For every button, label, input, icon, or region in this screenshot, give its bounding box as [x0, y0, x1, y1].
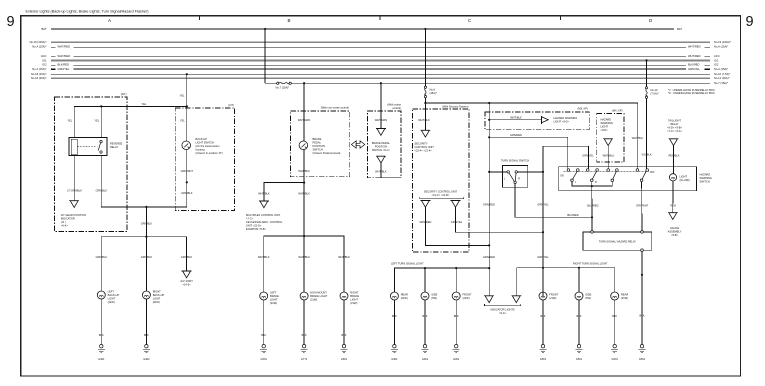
- svg-text:(With Security System): (With Security System): [442, 105, 469, 109]
- svg-text:GRN/YEL: GRN/YEL: [537, 203, 549, 207]
- svg-text:No.18 (15A)*: No.18 (15A)*: [31, 72, 47, 76]
- wire hazard feed horizontal: [425, 103, 637, 169]
- ground G401 left: [98, 345, 105, 353]
- fuse No.6: [424, 86, 426, 98]
- svg-text:WHT/BLK: WHT/BLK: [510, 115, 522, 119]
- wire right side drop: [578, 268, 580, 292]
- svg-text:BLK: BLK: [423, 314, 428, 318]
- hazard gang dashed line: [564, 170, 650, 172]
- svg-text:GRN/WHT: GRN/WHT: [181, 169, 194, 173]
- equivalence double arrow: [351, 141, 364, 148]
- connector arrow taillight relay: [669, 139, 679, 146]
- wire left front drop: [455, 268, 457, 292]
- svg-text:TURN SIGNAL/ HAZARD RELAY: TURN SIGNAL/ HAZARD RELAY: [599, 240, 637, 243]
- svg-text:BLK: BLK: [612, 314, 617, 318]
- connector arrow A/T gear position: [69, 201, 79, 208]
- svg-text:WHT/RED: WHT/RED: [688, 54, 701, 58]
- svg-text:FRONT: FRONT: [549, 292, 558, 296]
- node GRN/RED security join: [488, 244, 490, 246]
- wire high mount drop: [303, 236, 305, 292]
- section tick 3: [560, 16, 562, 20]
- wire GRN/YEL security: [456, 207, 544, 232]
- svg-text:YEL: YEL: [67, 119, 72, 123]
- wire hazard R to GRN/YEL riser: [543, 146, 588, 296]
- MX KP dash-dot box 2: [597, 114, 624, 163]
- svg-text:(21W): (21W): [153, 300, 160, 304]
- svg-text:(With cruise: (With cruise: [387, 103, 401, 107]
- bus No.A (15A) WHT/RED: [51, 46, 56, 48]
- lamp left side turn: [421, 292, 429, 300]
- svg-text:<9-D> <9-B>: <9-D> <9-B>: [667, 125, 682, 129]
- node GRN/RED riser top: [488, 102, 490, 104]
- svg-text:WHT/GRN: WHT/GRN: [375, 118, 388, 122]
- svg-text:RELAY: RELAY: [110, 145, 119, 149]
- wire hazard common to relay: [591, 182, 593, 187]
- svg-text:LIGHT <9-D>: LIGHT <9-D>: [554, 120, 570, 124]
- connector arrow cruise upper: [376, 129, 386, 136]
- svg-text:<21-C> <21-B>: <21-C> <21-B>: [432, 193, 450, 197]
- svg-text:SIDE: SIDE: [585, 292, 591, 296]
- svg-text:TAILLIGHT: TAILLIGHT: [668, 118, 681, 122]
- A/T dash-dot box left: [55, 97, 128, 232]
- svg-text:KEYLESS/ALARM - CONTROL: KEYLESS/ALARM - CONTROL: [246, 220, 283, 224]
- node brake splice: [303, 235, 305, 237]
- A/T dash-dot box right (back-up switch): [175, 108, 234, 211]
- svg-text:No.19 (100A)*: No.19 (100A)*: [714, 40, 731, 44]
- svg-text:LT GRN/BLK: LT GRN/BLK: [67, 189, 82, 193]
- wire bulb top: [673, 167, 675, 174]
- svg-text:No.A (15A)*: No.A (15A)*: [714, 45, 728, 49]
- node hazard feed: [424, 102, 426, 104]
- svg-text:GRN/RED: GRN/RED: [483, 203, 495, 207]
- bracket security outputs: [420, 197, 464, 199]
- bus No.19 (100A): [51, 41, 710, 43]
- svg-text:G601: G601: [261, 357, 268, 361]
- section tick 2: [379, 16, 381, 20]
- wire right backup light drop: [145, 237, 147, 291]
- svg-text:Exterior Lights (Back-up Light: Exterior Lights (Back-up Lights, Brake L…: [26, 10, 150, 14]
- svg-text:SWITCH <9-C>: SWITCH <9-C>: [372, 148, 391, 152]
- bus IG1: [51, 59, 710, 61]
- wire right turn bus: [516, 268, 614, 292]
- svg-text:G501: G501: [540, 357, 547, 361]
- svg-text:LIGHT: LIGHT: [601, 124, 609, 128]
- relay terminal top right: [641, 231, 644, 234]
- ground G301 c: [453, 345, 460, 353]
- bus No.A (15A) GRN/YEL: [51, 68, 56, 70]
- svg-text:GRY/WHT: GRY/WHT: [636, 203, 649, 207]
- svg-text:HAZARD WARNING: HAZARD WARNING: [554, 116, 578, 120]
- wire high mount to ground: [303, 300, 305, 345]
- wire WHT/BLK below brake switch: [303, 150, 305, 237]
- svg-text:GRN/YEL: GRN/YEL: [688, 67, 700, 71]
- lamp left rear turn: [390, 292, 398, 300]
- cruise control dash-dot box: [368, 111, 401, 178]
- wire left brake to ground: [263, 300, 265, 345]
- svg-text:IG1: IG1: [42, 58, 47, 62]
- svg-text:WHT/BLK: WHT/BLK: [298, 169, 310, 173]
- svg-text:(A/T): (A/T): [121, 92, 127, 96]
- connector arrow indicator left: [484, 296, 494, 303]
- svg-text:YEL: YEL: [180, 119, 185, 123]
- svg-text:No.A (15A)*: No.A (15A)*: [32, 67, 46, 71]
- svg-text:RIGHT: RIGHT: [153, 289, 161, 293]
- svg-text:SECURITY: SECURITY: [415, 142, 428, 146]
- connector arrow multiplex: [259, 201, 269, 208]
- wire WHT/BLK cruise out: [381, 163, 401, 178]
- svg-text:B: B: [288, 18, 291, 23]
- svg-text:WHT/RED: WHT/RED: [688, 45, 701, 49]
- relay contact pins: [100, 140, 102, 142]
- hazard pole 1: [567, 169, 579, 182]
- back-up light switch: [182, 141, 191, 150]
- connector arrow security out left: [420, 200, 430, 207]
- node No.18/YEL: [186, 73, 188, 75]
- svg-text:LIGHT: LIGHT: [680, 174, 688, 178]
- svg-text:*K : UNDER-DASH FUSE/RELAY BOX: *K : UNDER-DASH FUSE/RELAY BOX: [668, 91, 715, 95]
- svg-text:(A/T): (A/T): [228, 103, 234, 107]
- svg-text:WHT/BLK: WHT/BLK: [375, 169, 387, 173]
- wire YEL to backup switch: [186, 106, 188, 141]
- svg-text:No.10 (7.5A)*: No.10 (7.5A)*: [714, 72, 730, 76]
- svg-text:(With non-cruise control): (With non-cruise control): [321, 106, 349, 110]
- svg-text:WHT/BLK: WHT/BLK: [258, 192, 270, 196]
- connector arrow indicator right: [511, 296, 521, 303]
- svg-text:BLK: BLK: [541, 314, 546, 318]
- svg-text:GRN/BLK: GRN/BLK: [181, 255, 193, 259]
- svg-text:GRN/RED: GRN/RED: [419, 220, 431, 224]
- svg-text:GRN/BLK: GRN/BLK: [181, 191, 193, 195]
- svg-text:WHT/RED: WHT/RED: [58, 54, 71, 58]
- connector arrow security out right: [451, 200, 461, 207]
- svg-text:PEDAL: PEDAL: [313, 141, 322, 145]
- wire left turn bus: [394, 268, 489, 292]
- svg-text:WHT/BLK: WHT/BLK: [418, 118, 430, 122]
- svg-text:HAZARD: HAZARD: [601, 117, 612, 121]
- svg-text:OFF: OFF: [650, 171, 655, 174]
- svg-text:SWITCH: SWITCH: [700, 180, 710, 184]
- bus No.16/No.14: [51, 77, 710, 79]
- wire GRN/RED security: [425, 207, 489, 245]
- node No.7 line brake tap: [303, 82, 305, 84]
- svg-text:G301: G301: [422, 357, 429, 361]
- svg-text:RIGHT TURN SIGNAL LIGHT: RIGHT TURN SIGNAL LIGHT: [573, 261, 608, 265]
- node YEL junction 2: [186, 105, 188, 107]
- svg-text:RELAY: RELAY: [670, 122, 679, 126]
- svg-text:GRN/YEL: GRN/YEL: [451, 220, 463, 224]
- svg-text:BAT: BAT: [41, 27, 46, 31]
- svg-text:CONTROL UNIT: CONTROL UNIT: [415, 145, 435, 149]
- lamp left front turn: [452, 292, 460, 300]
- svg-text:(ILLUMI): (ILLUMI): [680, 178, 690, 182]
- svg-text:(21W): (21W): [621, 296, 628, 300]
- turn switch contacts: [507, 171, 509, 173]
- svg-text:A/T GEAR POSITION: A/T GEAR POSITION: [61, 213, 86, 217]
- svg-text:LEFT: LEFT: [108, 289, 115, 293]
- svg-text:WARNING: WARNING: [700, 176, 712, 180]
- wire IG1 drop to fuse No.10: [646, 60, 648, 86]
- svg-text:IG2: IG2: [714, 63, 719, 67]
- svg-text:LIGHT: LIGHT: [350, 297, 358, 301]
- wire fuse No.6 to security box: [424, 98, 426, 131]
- svg-text:YEL: YEL: [142, 102, 147, 106]
- svg-text:BACK-UP: BACK-UP: [153, 293, 165, 297]
- svg-text:No.19 (100A)*: No.19 (100A)*: [29, 40, 46, 44]
- wire into turn switch left: [489, 171, 507, 173]
- svg-text:GRN/YEL: GRN/YEL: [58, 67, 70, 71]
- svg-text:G501: G501: [639, 357, 646, 361]
- wire BAT drop to fuse No.6: [424, 29, 426, 86]
- svg-text:BLK: BLK: [261, 333, 266, 337]
- svg-text:(21W): (21W): [549, 296, 556, 300]
- svg-text:R: R: [595, 181, 597, 184]
- wire bulb to gauge: [672, 181, 674, 213]
- svg-text:GRN/BLK: GRN/BLK: [141, 222, 153, 226]
- svg-text:No.7 (15A)*: No.7 (15A)*: [276, 86, 290, 90]
- node backup splice 2: [145, 236, 147, 238]
- wire YEL feed horizontal: [74, 106, 187, 137]
- svg-text:LIGHT: LIGHT: [108, 296, 116, 300]
- svg-text:REVERSE: REVERSE: [110, 141, 123, 145]
- bus No.18/No.10: [51, 73, 710, 75]
- connector arrow A/V joint: [182, 271, 192, 278]
- svg-text:( R ): ( R ): [61, 220, 66, 224]
- svg-text:BLK/RED: BLK/RED: [688, 63, 700, 67]
- svg-text:<9-A>: <9-A>: [499, 311, 507, 315]
- ground G501 relay: [639, 345, 646, 353]
- svg-text:WHT/BLU: WHT/BLU: [603, 154, 615, 158]
- lamp right side turn: [575, 292, 583, 300]
- svg-text:G402: G402: [143, 357, 150, 361]
- svg-text:IG1: IG1: [714, 58, 719, 62]
- svg-text:GAUGE: GAUGE: [670, 226, 680, 230]
- svg-text:No.A (15A)*: No.A (15A)*: [32, 45, 46, 49]
- svg-text:GRN/BLK: GRN/BLK: [96, 255, 108, 259]
- svg-text:ACC: ACC: [41, 54, 47, 58]
- svg-text:YEL: YEL: [180, 94, 185, 98]
- wire LT GRN/BLK below relay: [73, 156, 75, 201]
- bus ACC WHT/RED: [51, 55, 56, 57]
- svg-text:G301: G301: [391, 357, 398, 361]
- svg-text:LIGHT SWITCH: LIGHT SWITCH: [196, 141, 215, 145]
- svg-text:IG2: IG2: [42, 63, 47, 67]
- svg-text:FRONT: FRONT: [463, 292, 472, 296]
- connector arrow gauge assembly: [668, 213, 678, 220]
- wire WHT/BLK hazard light tap: [489, 119, 541, 121]
- svg-text:BLK: BLK: [454, 314, 459, 318]
- svg-text:(21W): (21W): [350, 301, 357, 305]
- svg-text:(Closed: In position “R”): (Closed: In position “R”): [196, 151, 224, 155]
- svg-text:HIGH MOUNT: HIGH MOUNT: [310, 290, 327, 294]
- wire GRN/RED riser: [488, 103, 490, 296]
- svg-text:No.6: No.6: [430, 88, 436, 92]
- svg-text:HAZARD: HAZARD: [700, 173, 711, 177]
- svg-text:WARNING: WARNING: [601, 121, 613, 125]
- connector arrow cruise lower: [376, 156, 386, 163]
- svg-text:(21W): (21W): [108, 300, 115, 304]
- svg-text:A/V JOINT: A/V JOINT: [180, 279, 193, 283]
- svg-text:GRN/RED: GRN/RED: [510, 133, 522, 137]
- svg-text:LEFT: LEFT: [270, 290, 277, 294]
- bracket indicator lights: [485, 304, 521, 306]
- svg-text:LIGHT: LIGHT: [270, 297, 278, 301]
- svg-text:WHT/GRN: WHT/GRN: [298, 118, 311, 122]
- svg-text:G501: G501: [612, 357, 619, 361]
- node IG1/No.10: [645, 59, 647, 61]
- svg-text:BLK: BLK: [640, 314, 645, 318]
- svg-text:*J : UNDER-HOOD FUSE/RELAY BOX: *J : UNDER-HOOD FUSE/RELAY BOX: [668, 88, 715, 92]
- svg-text:INDICATOR LIGHTS: INDICATOR LIGHTS: [491, 307, 515, 311]
- svg-text:GRN/YEL: GRN/YEL: [582, 154, 594, 158]
- section tick 1: [199, 16, 201, 20]
- wire BAT drop to fuse No.7: [264, 29, 266, 83]
- svg-text:<22-4> <21-4>: <22-4> <21-4>: [415, 149, 433, 153]
- wire GRN/WHT below switch: [186, 150, 188, 207]
- ground G402: [143, 345, 150, 353]
- svg-text:BLK: BLK: [302, 333, 307, 337]
- svg-text:BRAKE: BRAKE: [270, 294, 279, 298]
- fuse No.7: [277, 82, 292, 84]
- wire GRN/BLK below relay: [101, 156, 187, 207]
- ground G301 a: [391, 345, 398, 353]
- hazard pole 3: [607, 169, 618, 182]
- svg-text:RIGHT: RIGHT: [350, 290, 358, 294]
- ground G771: [300, 345, 307, 353]
- ground G501 c: [611, 345, 618, 353]
- fuse No.10: [645, 87, 647, 99]
- svg-text:No.14 (40A)*: No.14 (40A)*: [714, 76, 730, 80]
- svg-text:WHT/RED: WHT/RED: [58, 45, 71, 49]
- lamp high mount brake light: [300, 292, 308, 300]
- svg-text:(7.5A)*: (7.5A)*: [651, 92, 659, 96]
- wire BLU/RED from turn switch: [515, 184, 592, 218]
- svg-text:control): control): [392, 106, 401, 110]
- svg-text:(15A)*: (15A)*: [430, 91, 437, 95]
- node YEL junction 1: [100, 105, 102, 107]
- svg-text:BACK-UP: BACK-UP: [108, 293, 120, 297]
- svg-text:BLU/RED: BLU/RED: [587, 203, 598, 207]
- svg-text:ON: ON: [560, 175, 564, 178]
- svg-text:G401: G401: [98, 357, 105, 361]
- wire out of turn switch right: [517, 171, 543, 173]
- wire right indicator drop: [515, 268, 517, 296]
- wire No.18 drop YEL: [186, 74, 188, 106]
- bus BAT: [51, 28, 674, 30]
- wire relay ground: [641, 252, 643, 345]
- svg-text:(Closed: Pedal pressed): (Closed: Pedal pressed): [313, 151, 341, 155]
- wire backup center drop: [145, 207, 147, 237]
- hazard pole 2: [586, 169, 598, 182]
- wires right turn grounds: [542, 300, 544, 345]
- wire hazard off to relay: [641, 182, 643, 232]
- ground G301 b: [422, 345, 429, 353]
- node splice GRN/WHT-GRN/BLK: [186, 181, 188, 183]
- ground G601 left brake: [260, 345, 267, 353]
- svg-text:GRN/YEL: GRN/YEL: [537, 255, 549, 259]
- svg-text:SIDE: SIDE: [431, 292, 437, 296]
- lamp right brake light: [340, 292, 348, 300]
- svg-text:RED: RED: [671, 203, 677, 207]
- node No.7 line cruise tap: [380, 82, 382, 84]
- svg-text:<14-5>: <14-5>: [182, 282, 191, 286]
- svg-text:WHT/BLK: WHT/BLK: [258, 255, 270, 259]
- svg-text:(MX, KP): (MX, KP): [577, 107, 588, 111]
- connector arrow security in: [420, 130, 430, 137]
- svg-text:VIO/BLK: VIO/BLK: [641, 153, 651, 157]
- svg-text:(21W): (21W): [310, 297, 317, 301]
- relay terminal bottom: [641, 249, 644, 252]
- svg-text:No.16 (40A)*: No.16 (40A)*: [31, 76, 47, 80]
- svg-text:REAR: REAR: [621, 292, 628, 296]
- svg-text:G501: G501: [576, 357, 583, 361]
- svg-text:9: 9: [7, 14, 15, 30]
- node backup splice 1: [145, 206, 147, 208]
- svg-text:No.7 (15A)*: No.7 (15A)*: [714, 81, 728, 85]
- relay coil: [71, 139, 77, 155]
- brake pedal position switch: [299, 141, 308, 150]
- svg-text:BRAKE PEDAL: BRAKE PEDAL: [372, 141, 391, 145]
- svg-text:G771: G771: [301, 357, 308, 361]
- svg-text:GRN/RED: GRN/RED: [483, 255, 495, 259]
- svg-text:TURN SIGNAL SWITCH: TURN SIGNAL SWITCH: [501, 159, 529, 163]
- svg-text:No.10: No.10: [651, 88, 658, 92]
- connector arrow right hazard warning light: [542, 116, 549, 124]
- svg-text:BRAKE: BRAKE: [350, 294, 359, 298]
- wire left backup light to ground: [100, 299, 102, 345]
- svg-text:ACC: ACC: [714, 54, 720, 58]
- relay RESERVE box: [69, 138, 107, 156]
- svg-text:<9-D>: <9-D>: [601, 128, 609, 132]
- svg-text:BRAKE LIGHT: BRAKE LIGHT: [310, 294, 328, 298]
- wire backup distribution: [101, 237, 186, 291]
- svg-text:SWITCH: SWITCH: [313, 148, 323, 152]
- svg-text:MULTIPLEX CONTROL UNIT: MULTIPLEX CONTROL UNIT: [246, 213, 281, 217]
- ground G501 a: [540, 345, 547, 353]
- wires left turn grounds: [393, 300, 395, 345]
- svg-text:LEFT TURN SIGNAL LIGHT: LEFT TURN SIGNAL LIGHT: [391, 261, 424, 265]
- svg-text:RED/BLK: RED/BLK: [668, 154, 679, 158]
- svg-text:WHT/BLK: WHT/BLK: [632, 136, 644, 140]
- wire WHT/BLU to hazard switch: [607, 146, 609, 169]
- svg-text:INDICATOR: INDICATOR: [61, 216, 75, 220]
- illumination bulb: [669, 174, 676, 181]
- svg-text:(21W): (21W): [401, 296, 408, 300]
- svg-text:BLK: BLK: [577, 314, 582, 318]
- connector arrow hazard warning light return: [603, 139, 613, 146]
- svg-text:GRN/BLK: GRN/BLK: [96, 189, 108, 193]
- hazard internal bus: [572, 182, 612, 187]
- bus No.7 fused line: [265, 82, 277, 84]
- svg-text:LIGHT: LIGHT: [153, 296, 161, 300]
- svg-text:No.A (15A)*: No.A (15A)*: [714, 67, 728, 71]
- ground G601 right brake: [341, 345, 348, 353]
- svg-text:BLK: BLK: [144, 333, 149, 337]
- lamp right front turn: [539, 292, 547, 300]
- svg-text:R: R: [518, 178, 520, 181]
- hazard pole 4 off: [636, 169, 648, 182]
- wire WHT/GRN to brake switch: [303, 83, 305, 141]
- svg-text:ECM/PCM <5-B>: ECM/PCM <5-B>: [246, 227, 267, 231]
- svg-text:G601: G601: [341, 357, 348, 361]
- lamp left back-up light: [97, 291, 105, 299]
- node brake multiplex tap: [303, 182, 305, 184]
- svg-text:BAT: BAT: [677, 27, 682, 31]
- svg-text:WHT/BLK: WHT/BLK: [338, 255, 350, 259]
- svg-text:(5W): (5W): [431, 296, 437, 300]
- svg-text:<7-C>: <7-C>: [246, 217, 254, 221]
- ground G501 b: [576, 345, 583, 353]
- svg-text:<6-A>: <6-A>: [61, 223, 69, 227]
